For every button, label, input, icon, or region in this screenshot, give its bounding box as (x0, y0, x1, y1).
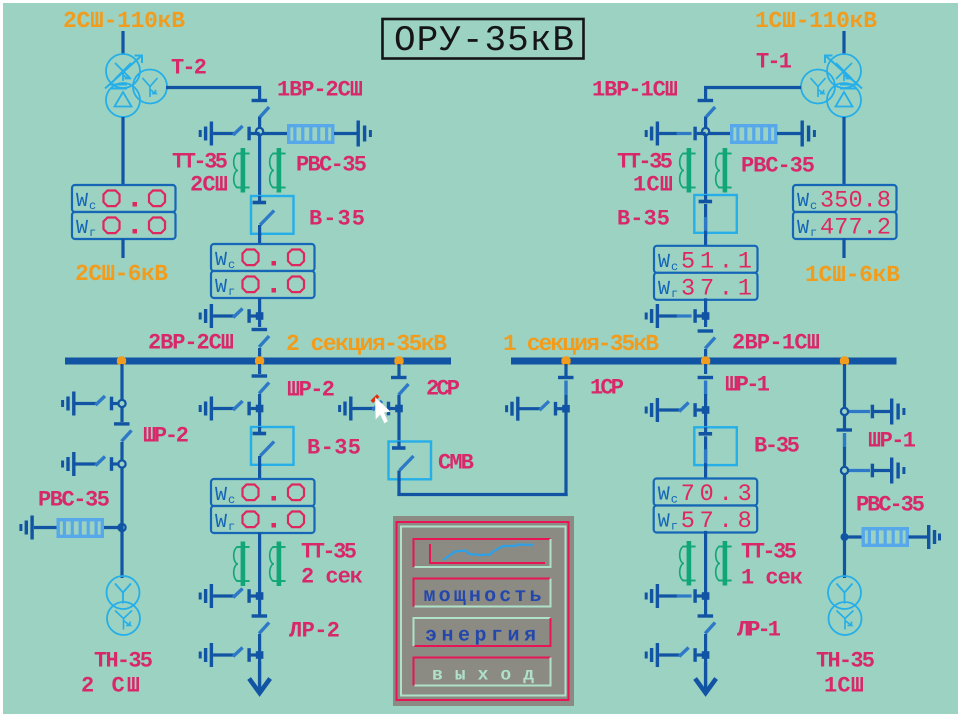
svg-text:1СШ-6кВ: 1СШ-6кВ (805, 262, 900, 288)
svg-text:РВС-35: РВС-35 (741, 153, 815, 178)
wire feeder (843, 364, 846, 429)
earthing switch (516, 397, 519, 421)
earthing switch closed (656, 584, 659, 608)
node bus junction (117, 356, 126, 365)
svg-text:РВС-35: РВС-35 (856, 492, 925, 517)
wire 2СР stub (397, 364, 400, 376)
wire to bus (704, 349, 707, 358)
svg-text:2СР: 2СР (426, 376, 460, 401)
node (841, 533, 849, 541)
graph axes (430, 544, 545, 563)
svg-text:2 сек: 2 сек (301, 564, 363, 589)
svg-text:350.8: 350.8 (820, 188, 891, 215)
button выход (414, 658, 551, 686)
svg-text:W: W (215, 276, 227, 299)
disconnector ШР-1 closed (837, 428, 853, 431)
wire to arrester (845, 535, 862, 538)
svg-text:1 секция-35кВ: 1 секция-35кВ (503, 331, 659, 357)
svg-text:СМВ: СМВ (438, 450, 474, 475)
breaker СМВ (389, 442, 432, 480)
disconnector ШР-2 (114, 422, 130, 425)
arrester РВС-35 (58, 520, 102, 537)
arrester РВС-35 (732, 126, 776, 143)
wire T-1 to 1ВР-1СШ (704, 86, 801, 89)
svg-text:2СШ: 2СШ (190, 172, 228, 197)
breaker В-35 (251, 196, 294, 234)
ground (801, 121, 804, 147)
svg-text:2 секция-35кВ: 2 секция-35кВ (286, 331, 447, 357)
svg-text:ТТ-35: ТТ-35 (741, 539, 797, 564)
earthing switch (656, 643, 659, 667)
disconnector ШР-2 (252, 374, 268, 377)
meter Wс/Wг (70.3/57.8) (654, 479, 758, 506)
graph button (414, 539, 551, 567)
svg-text:1ВР-2СШ: 1ВР-2СШ (277, 77, 363, 102)
wire arrester to ground (34, 526, 57, 529)
svg-text:W: W (797, 190, 809, 213)
wire breaker to meter (704, 233, 707, 247)
wire T-2 to 1ВР-2СШ (166, 86, 261, 89)
wire meter down (704, 298, 707, 327)
svg-text:В-35: В-35 (309, 206, 365, 231)
disconnector 1СР closed (558, 376, 574, 379)
earthing switch closed (656, 122, 659, 146)
svg-text:г: г (228, 520, 235, 534)
control panel (393, 516, 574, 706)
wire tie (397, 479, 400, 496)
voltage transformer ТН-35 (107, 576, 140, 609)
svg-text:W: W (215, 511, 227, 534)
svg-text:2СШ-6кВ: 2СШ-6кВ (75, 261, 168, 287)
CT ТТ-35 2СШ (241, 148, 246, 193)
wire feeder (704, 364, 707, 374)
svg-text:В-35: В-35 (617, 206, 670, 231)
svg-text:г: г (671, 520, 678, 534)
breaker В-35 (251, 427, 294, 465)
wire T-1 down to meter (842, 117, 845, 186)
svg-text:W: W (658, 484, 670, 507)
breaker В-35 closed (694, 195, 737, 233)
earthing switch (210, 304, 213, 328)
transformer Т-1 (801, 54, 862, 117)
svg-text:ТН-35: ТН-35 (94, 648, 153, 673)
svg-text:энергия: энергия (425, 625, 536, 648)
feeder arrow (704, 662, 707, 694)
disconnector 1ВР-1СШ (698, 99, 714, 102)
svg-text:477.2: 477.2 (820, 215, 891, 242)
earthing switch (72, 392, 75, 416)
wire feeder (120, 364, 123, 422)
wire (258, 599, 261, 615)
wire T-1 top stub (842, 31, 845, 55)
earthing switch closed (656, 304, 659, 328)
wire T-2 down to meter (121, 117, 124, 186)
svg-text:с: с (228, 493, 235, 507)
disconnector ШР-1 closed (698, 376, 714, 379)
meter Wс/Wг (51.1/37.1) (654, 246, 758, 273)
svg-text:1СШ: 1СШ (633, 172, 673, 197)
svg-text:с: с (671, 493, 678, 507)
disconnector 2ВР-1СШ (698, 329, 714, 332)
svg-text:ТТ-35: ТТ-35 (172, 149, 228, 174)
node bus junction (840, 356, 849, 365)
wire (704, 394, 707, 427)
voltage transformer ТН-35 (828, 576, 861, 609)
earthing switch (210, 397, 213, 421)
svg-text:W: W (658, 511, 670, 534)
wire through CTs (258, 134, 261, 197)
CT ТТ-35 2 сек (241, 542, 246, 587)
svg-text:В-35: В-35 (307, 435, 361, 460)
svg-text:1СШ-110кВ: 1СШ-110кВ (755, 8, 877, 34)
svg-text:W: W (76, 190, 88, 213)
earthing switch (210, 584, 213, 608)
earthing switch (656, 398, 659, 422)
svg-text:г: г (89, 226, 96, 240)
svg-text:ТТ-35: ТТ-35 (617, 149, 673, 174)
wire arrester to ground (909, 535, 928, 538)
wire meter down (258, 298, 261, 327)
wire (258, 117, 261, 129)
wire meter to 6kV (121, 239, 124, 258)
svg-text:1ВР-1СШ: 1ВР-1СШ (592, 77, 678, 102)
svg-text:в ы х о д: в ы х о д (432, 666, 534, 686)
earthing switch closed (890, 399, 893, 425)
svg-text:ТТ-35: ТТ-35 (301, 539, 357, 564)
ground (30, 516, 33, 540)
node junction (256, 128, 263, 135)
wire arrester to ground (777, 132, 801, 135)
ground (927, 525, 930, 549)
wire 1СР stub (564, 364, 567, 376)
svg-text:г: г (671, 287, 678, 301)
svg-text:1СР: 1СР (590, 375, 624, 400)
svg-text:ШР-1: ШР-1 (725, 372, 770, 397)
svg-text:с: с (89, 199, 96, 213)
wire (704, 634, 707, 662)
wire (397, 395, 400, 442)
svg-text:РВС-35: РВС-35 (38, 487, 110, 512)
svg-text:ТН-35: ТН-35 (816, 648, 875, 673)
svg-text:с: с (228, 258, 235, 272)
svg-text:W: W (797, 217, 809, 240)
meter Wс/Wг (0.0/0.0) (211, 479, 315, 506)
wire meter down (704, 531, 707, 596)
arrester РВС-35 (289, 126, 333, 143)
wire (258, 634, 261, 662)
svg-text:с: с (810, 199, 817, 213)
earthing switch (349, 397, 352, 421)
graph curve (443, 545, 533, 561)
earthing switch closed (890, 458, 893, 484)
wire (704, 599, 707, 615)
node (118, 524, 125, 531)
disconnector 2ВР-2СШ (252, 328, 268, 331)
wire breaker to meter (704, 465, 707, 479)
node bus junction (394, 356, 403, 365)
meter Wс/Wг T-2 (0.0/0.0) (72, 185, 176, 212)
wire meter down (258, 533, 261, 597)
svg-text:ШР-2: ШР-2 (287, 377, 335, 402)
panel outer border (397, 522, 569, 700)
arrester РВС-35 (863, 529, 907, 546)
title box ОРУ-35кВ (383, 19, 584, 59)
CT ТТ-35 1СШ (687, 148, 692, 193)
wire (843, 447, 846, 578)
svg-text:W: W (215, 484, 227, 507)
wire breaker to meter (258, 465, 261, 481)
disconnector 2СР (391, 376, 407, 379)
transformer Т-2 (105, 54, 167, 117)
disconnector ЛР-1 (698, 614, 714, 617)
node bus junction (561, 356, 570, 365)
panel inner border (401, 527, 566, 696)
svg-text:с: с (671, 260, 678, 274)
svg-text:W: W (658, 278, 670, 301)
busbar section 1 (511, 358, 897, 365)
svg-text:ЛР-1: ЛР-1 (737, 617, 781, 642)
svg-text:W: W (215, 249, 227, 272)
node bus junction (255, 356, 264, 365)
wire feeder (258, 364, 261, 374)
busbar section 2 (65, 358, 451, 365)
button мощность (414, 579, 551, 607)
svg-text:W: W (658, 251, 670, 274)
svg-text:ОРУ-35кВ: ОРУ-35кВ (394, 20, 574, 61)
feeder arrow (258, 662, 261, 694)
wire arrester to ground (334, 132, 357, 135)
node bus junction (701, 356, 710, 365)
earthing switch (72, 452, 75, 476)
svg-text:W: W (76, 217, 88, 240)
breaker В-35 closed (694, 427, 737, 465)
svg-text:2ВР-2СШ: 2ВР-2СШ (148, 330, 234, 355)
svg-text:ШР-2: ШР-2 (143, 423, 189, 448)
disconnector ЛР-2 (252, 614, 268, 617)
wire through CTs (704, 134, 707, 197)
meter Wс/Wг Т-1 (793, 185, 897, 212)
svg-text:г: г (810, 226, 817, 240)
wire to arrester (709, 132, 730, 135)
wire breaker to meter (258, 233, 261, 245)
wire (704, 117, 707, 129)
wire to arrester (104, 526, 122, 529)
svg-text:ЛР-2: ЛР-2 (289, 618, 340, 643)
wire (258, 394, 261, 427)
CT ТТ-35 1 сек (687, 541, 692, 586)
svg-text:ШР-1: ШР-1 (868, 428, 916, 453)
button энергия (414, 618, 551, 646)
svg-text:2СШ-110кВ: 2СШ-110кВ (63, 8, 185, 34)
node junction (702, 128, 709, 135)
svg-text:г: г (228, 285, 235, 299)
wire to arrester (263, 132, 287, 135)
svg-text:Т-1: Т-1 (756, 49, 792, 74)
svg-text:2ВР-1СШ: 2ВР-1СШ (732, 330, 820, 355)
disconnector 1ВР-2СШ (252, 99, 268, 102)
svg-text:1 сек: 1 сек (741, 565, 803, 590)
earthing switch (210, 643, 213, 667)
svg-text:В-35: В-35 (754, 433, 800, 458)
earthing switch with ground (210, 122, 213, 146)
svg-text:Т-2: Т-2 (171, 55, 207, 80)
svg-text:РВС-35: РВС-35 (296, 152, 367, 177)
wire to bus (258, 348, 261, 358)
wire T-2 top stub (121, 31, 124, 55)
ground (357, 121, 360, 147)
meter Wс/Wг (0.0/0.0) (211, 244, 315, 271)
wire meter to 6kV (842, 239, 845, 259)
wire (120, 442, 123, 578)
mouse cursor (372, 396, 378, 402)
svg-text:1СШ: 1СШ (824, 673, 864, 698)
